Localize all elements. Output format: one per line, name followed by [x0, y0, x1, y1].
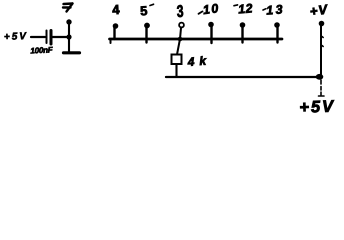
pin 3 terminal open circle: [179, 23, 184, 28]
svg-text:+5V: +5V: [299, 98, 335, 117]
svg-text:10: 10: [202, 1, 221, 17]
pin 10 terminal: [210, 25, 212, 44]
node junction at pin7/ground: [66, 34, 71, 39]
svg-text:5: 5: [140, 3, 148, 18]
pin 7 terminal dot: [66, 19, 71, 24]
pin 5 terminal: [145, 26, 147, 43]
node junction pin3/bus: [178, 37, 183, 42]
pin 4 terminal: [113, 26, 115, 39]
wire +V vertical right: [320, 25, 322, 77]
svg-text:4k: 4k: [186, 53, 211, 69]
wire bottom rail horizontal: [166, 76, 321, 78]
wire pin 3 stub through bus: [177, 28, 181, 55]
wire bus horizontal: [110, 38, 283, 41]
wire capacitor to node: [53, 36, 70, 38]
wire resistor to bottom rail: [175, 64, 177, 77]
capacitor C1 100nF plates: [46, 31, 48, 44]
wire pin7 vertical: [68, 22, 70, 52]
svg-text:+5V: +5V: [4, 31, 28, 43]
svg-text:3: 3: [176, 3, 184, 22]
ground: [64, 51, 80, 54]
node junction bottom right: [316, 74, 324, 80]
pin 13 terminal: [276, 25, 278, 43]
wire dashed to +5V: [319, 80, 325, 96]
svg-text:13: 13: [266, 2, 286, 17]
wire +5V to capacitor: [31, 36, 45, 38]
svg-text:12: 12: [238, 1, 254, 16]
pin label 7: [63, 4, 73, 12]
resistor R1 body: [172, 55, 182, 65]
pin +V terminal dot: [319, 21, 325, 27]
svg-text:100nF: 100nF: [30, 45, 54, 55]
pin 12 terminal: [241, 25, 243, 43]
svg-text:+V: +V: [309, 2, 329, 19]
